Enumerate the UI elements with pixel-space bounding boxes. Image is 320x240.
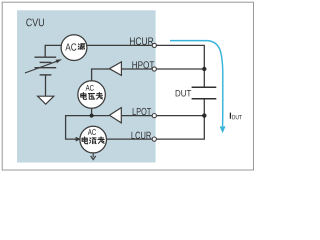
AC source U1 circle [61,35,87,61]
wire LPOT buffer output, down and into ammeter [66,116,110,140]
wire HPOT buffer output to voltmeter top [92,69,110,81]
AC voltmeter M1 circle [78,81,106,109]
wire HPOT net: buffer input run to right bus [121,68,204,70]
CVU shaded panel [17,10,156,162]
label HCUR [130,37,153,45]
terminal HPOT [152,67,156,71]
wire LCUR net: ammeter to right bus and up to DUT bottom [93,99,204,139]
variable adjustment arrow [25,59,62,73]
label IDUT [230,113,242,120]
arrowhead into ammeter [76,137,81,142]
wire voltmeter bottom to LPOT output [91,108,93,115]
AC voltmeter label [81,85,103,100]
AC ammeter M2 circle [80,126,107,153]
label LPOT [133,108,151,115]
capacitor DUT plates [192,87,217,99]
label HPOT [132,61,154,68]
terminal HCUR [152,43,156,47]
op-amp buffer A2 (LPOT) [109,108,121,123]
AC ammeter label [82,129,104,144]
outer frame [2,2,253,170]
node junction HPOT/bus [202,67,206,71]
ammeter ground arrow [91,153,96,160]
label DUT [176,90,191,96]
node junction LPOT/bus [202,113,206,117]
battery V1 (variable DC bias) [35,57,57,75]
CVU title [26,18,44,26]
wire battery to ground [45,75,47,97]
current arrow IDUT (cyan) [170,41,226,134]
node junction voltmeter/LPOT output [90,114,94,118]
wire HCUR net: stub, horizontal run and right bus down to DUT top [45,45,204,87]
terminal LCUR [152,137,156,141]
wire LPOT net: buffer input run to right bus [121,115,204,117]
ground [38,96,54,104]
label LCUR [132,132,151,139]
AC source label [65,43,84,50]
terminal LPOT [152,114,156,118]
op-amp buffer A1 (HPOT) [109,62,121,76]
